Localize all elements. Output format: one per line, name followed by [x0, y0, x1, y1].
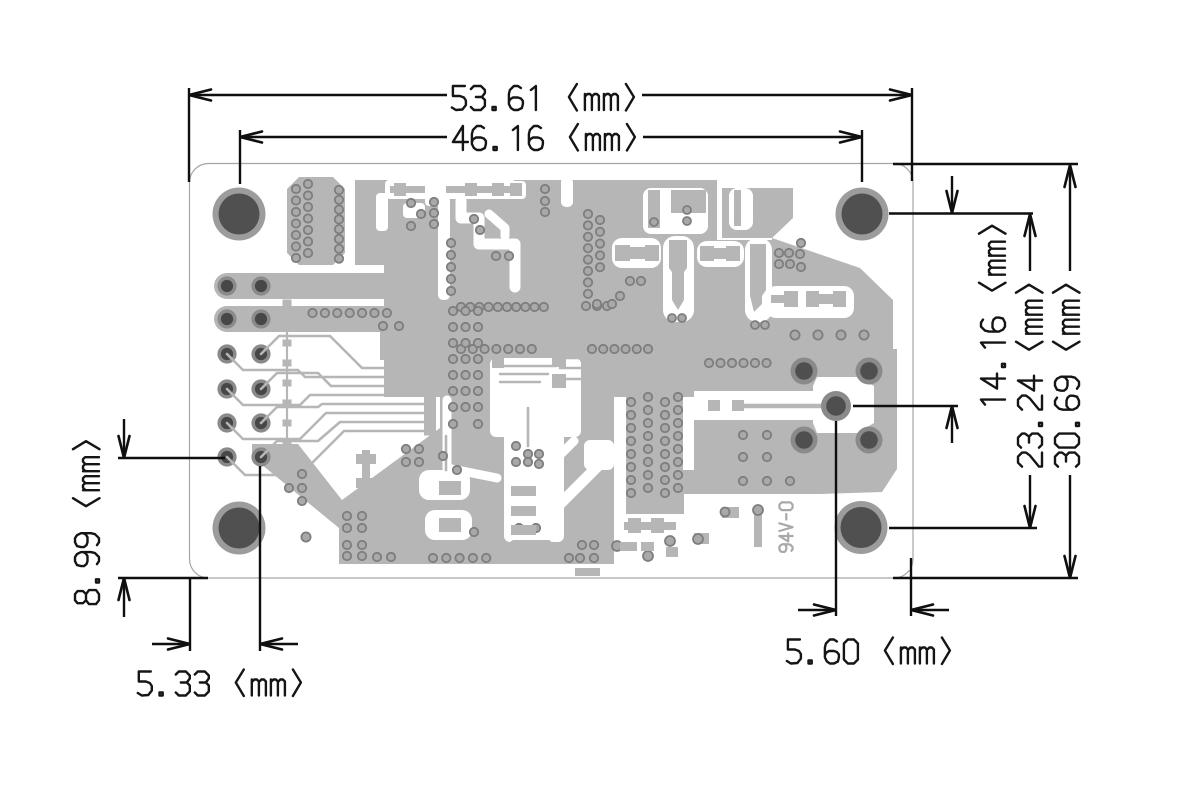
dim 46.16 extension lines — [239, 130, 241, 184]
right side reference lines — [889, 212, 1033, 214]
dim 53.61 — [189, 94, 447, 96]
connector bar rows — [214, 273, 400, 299]
white channels top-centre — [438, 196, 450, 300]
copper pour — [355, 180, 717, 265]
dim 5.33 — [189, 578, 191, 651]
dim text 46.16 — [453, 124, 635, 151]
dim text 5.60 — [787, 638, 950, 665]
dim 46.16 — [240, 136, 447, 138]
connector pads — [217, 276, 236, 295]
bottom SMD parts — [624, 522, 676, 530]
SMD parts in islands — [648, 190, 660, 228]
comb bars — [511, 486, 536, 496]
white clearance islands — [643, 188, 708, 234]
board outline — [190, 164, 914, 579]
mounting holes — [213, 188, 266, 241]
dim text 14.16 — [979, 226, 1006, 405]
dim text 53.61 — [452, 84, 634, 111]
dim text 8.99 — [73, 441, 100, 604]
IC pad cluster — [287, 177, 345, 265]
dim 5.60 — [835, 421, 837, 616]
dim 14.16 arrows — [951, 176, 953, 209]
dim 30.69 — [1069, 169, 1071, 271]
dim text 23.24 — [1016, 285, 1043, 467]
94V-0 silkscreen — [779, 502, 792, 552]
dim 23.24 — [1029, 218, 1031, 271]
mounting pads cluster — [791, 358, 818, 385]
trace to centre via — [737, 404, 834, 409]
centre via — [821, 391, 851, 421]
connector traces — [261, 336, 424, 368]
dim text 5.33 — [138, 670, 301, 697]
dim 8.99 — [118, 457, 225, 459]
dim text 30.69 — [1053, 285, 1080, 467]
via fields — [308, 309, 316, 317]
dim 53.61 extension lines — [188, 88, 190, 182]
